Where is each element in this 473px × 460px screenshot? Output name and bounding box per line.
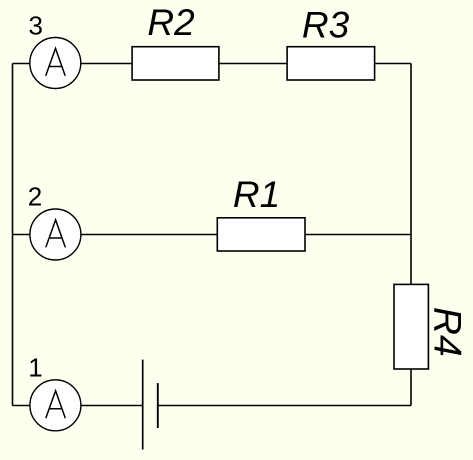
wire: stub to ammeter 1 (13, 405, 31, 407)
svg-text:3: 3 (28, 10, 42, 40)
svg-text:R2: R2 (147, 2, 195, 43)
svg-text:2: 2 (28, 181, 42, 211)
wire: ammeter 1 to battery (81, 405, 143, 407)
resistor R4 (body) (394, 284, 428, 369)
wire: R1 to right vertical (305, 234, 411, 236)
svg-text:R4: R4 (425, 307, 468, 357)
ammeter 2 (circle) (30, 209, 81, 260)
svg-text:R1: R1 (233, 174, 280, 215)
wire: ammeter 3 to R2 (81, 63, 132, 65)
resistor R2 (body) (132, 47, 219, 80)
ammeter 3 A symbol (46, 48, 65, 75)
ammeter 3 (circle) (30, 38, 81, 89)
svg-text:1: 1 (28, 353, 42, 383)
wire: right vertical lower (410, 369, 412, 406)
wire: battery to right corner (158, 405, 411, 407)
resistor R1 (body) (217, 218, 305, 251)
ammeter 2 A symbol (46, 220, 65, 247)
wire: ammeter 2 to R1 (81, 234, 217, 236)
wire: R2 to R3 (219, 63, 287, 65)
ammeter 1 (circle) (30, 380, 81, 431)
wire: stub to ammeter 3 (13, 63, 31, 65)
wire: R3 to right corner (375, 63, 411, 65)
wire: stub to ammeter 2 (13, 234, 31, 236)
resistor R3 (body) (287, 47, 375, 80)
battery positive plate (long) (142, 360, 144, 450)
wire: right vertical upper (410, 64, 412, 285)
battery negative plate (short) (157, 383, 159, 428)
wire: left vertical bus (12, 64, 14, 406)
ammeter 1 A symbol (46, 391, 65, 418)
svg-text:R3: R3 (302, 4, 350, 45)
